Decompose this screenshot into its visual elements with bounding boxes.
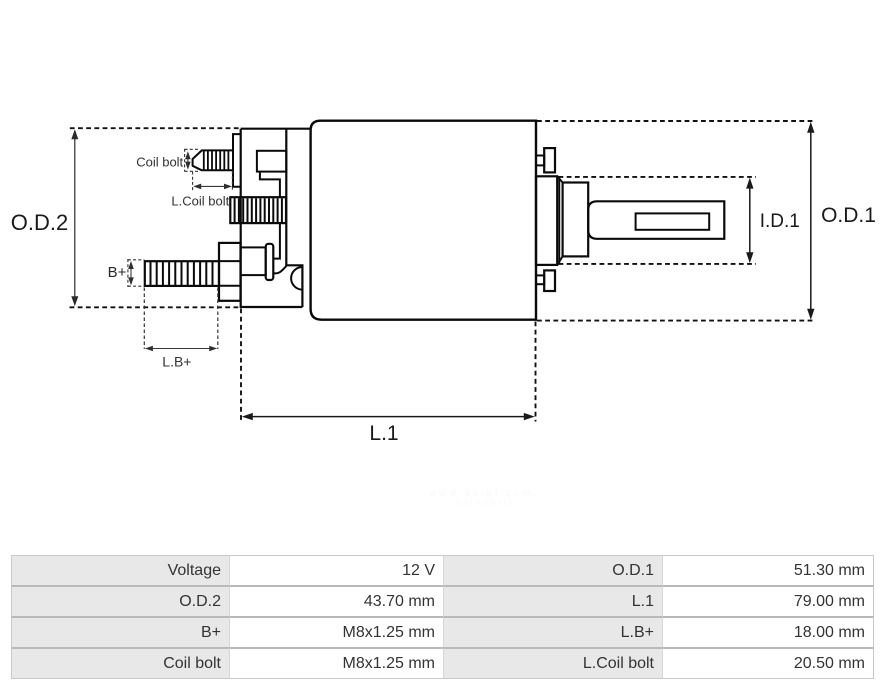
I.D.1 dimension arrow: [749, 182, 751, 260]
Coil bolt dimension arrow: [187, 154, 189, 168]
B+ hex nut: [219, 243, 241, 301]
svg-text:. · . . . a u t o p a r t s: . · . . . a u t o p a r t s . . . ·: [430, 497, 534, 507]
bottom terminal head: [544, 270, 555, 291]
L.1 dashed extension left: [240, 309, 242, 422]
specification table: [11, 555, 874, 679]
O.D.2 dashed extension bottom: [70, 306, 240, 308]
B+ bolt threads: [151, 262, 213, 285]
L.1 dashed extension right: [535, 322, 537, 422]
Coil bolt dashed box: [185, 149, 200, 172]
boss face: [563, 183, 589, 257]
B+ dimension arrow: [130, 264, 132, 284]
coil bolt tab: [233, 134, 241, 187]
L.Coil bolt dimension arrow: [196, 185, 230, 187]
svg-text:L.B+: L.B+: [162, 354, 191, 370]
solenoid body: [311, 121, 536, 320]
nut flats: [219, 261, 241, 286]
svg-text:L.Coil bolt: L.Coil bolt: [171, 194, 229, 209]
top terminal neck: [536, 156, 544, 166]
svg-text:L.1: L.1: [369, 422, 398, 445]
svg-text:O.D.2: O.D.2: [11, 210, 68, 235]
O.D.1 dashed extension bottom: [537, 320, 814, 322]
svg-text:O.D.1: O.D.1: [821, 204, 876, 227]
I.D.1 dashed extension bottom: [559, 263, 757, 265]
svg-text:B+: B+: [108, 264, 127, 281]
washer pill: [266, 244, 274, 280]
lever fillet: [273, 266, 286, 273]
L.B+ dashed extension right: [217, 288, 219, 350]
bushing threads: [235, 198, 282, 222]
svg-text:I.D.1: I.D.1: [760, 211, 800, 232]
L.Coil bolt dashed verticals: [193, 171, 233, 192]
bracket notch: [257, 151, 286, 172]
plunger: [588, 201, 724, 239]
L.1 dimension arrow: [246, 416, 531, 418]
front bracket outline: [241, 129, 303, 307]
B+ dashed box: [128, 259, 144, 287]
svg-text:Coil bolt: Coil bolt: [136, 155, 183, 170]
O.D.1 dimension arrow: [810, 126, 812, 316]
O.D.2 dimension arrow: [74, 133, 76, 303]
coil bolt: [193, 150, 233, 170]
flange chamfers: [557, 176, 562, 265]
top terminal head: [544, 148, 555, 172]
washer: [241, 247, 266, 275]
lever bulge arc: [291, 267, 302, 290]
plunger slot: [636, 213, 710, 229]
bottom terminal neck: [536, 275, 544, 284]
O.D.2 dashed extension top: [70, 127, 240, 129]
coil bolt threads: [204, 151, 229, 171]
O.D.1 dashed extension top: [537, 120, 814, 122]
bracket inner step: [260, 172, 280, 259]
B+ bolt: [145, 261, 219, 286]
bracket top frame line: [241, 128, 311, 130]
threaded bushing: [230, 197, 286, 223]
L.B+ dimension arrow: [148, 348, 215, 350]
L.B+ dashed extension left: [143, 288, 145, 350]
rear flange: [536, 176, 557, 265]
I.D.1 dashed extension top: [559, 176, 757, 178]
flange second line: [558, 178, 560, 264]
